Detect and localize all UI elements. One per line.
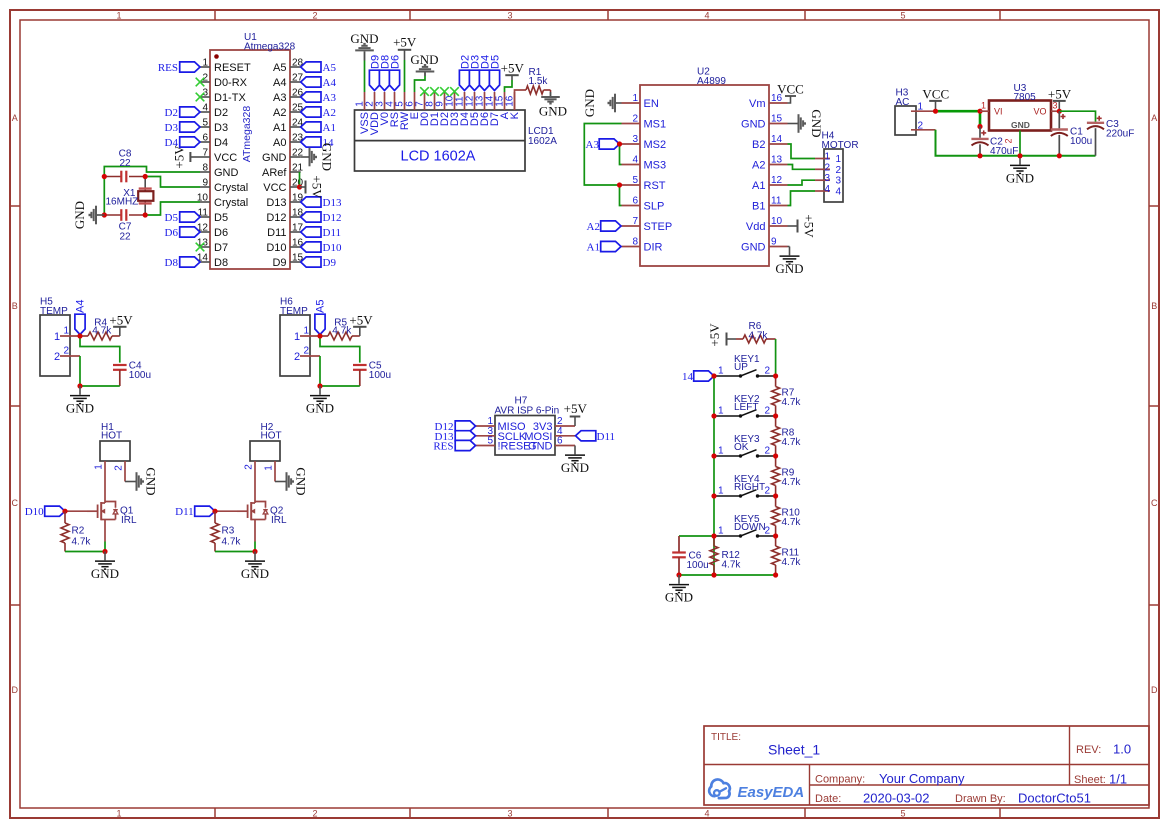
svg-text:+5V: +5V: [501, 61, 525, 76]
svg-text:3: 3: [507, 809, 512, 819]
svg-text:D10: D10: [323, 242, 342, 254]
wire U1 pin10 Crystal to node: [145, 202, 200, 215]
svg-text:9: 9: [771, 237, 777, 248]
svg-text:220uF: 220uF: [1106, 128, 1134, 139]
svg-text:R2: R2: [72, 526, 85, 537]
svg-text:3: 3: [632, 134, 638, 145]
header H2 HOT: [250, 422, 282, 461]
capacitor C1 100u: [1051, 111, 1093, 156]
GND at H2: [275, 467, 309, 495]
port 14 at keypad: [682, 371, 714, 383]
LCD1 pin 8 D1: [425, 92, 442, 126]
svg-text:1: 1: [718, 366, 724, 377]
no-connect X: [196, 93, 205, 102]
GND at H1: [125, 467, 159, 495]
svg-text:AC: AC: [896, 97, 910, 108]
port D13 at U1 right: [301, 197, 342, 209]
svg-text:5: 5: [632, 175, 638, 186]
svg-text:EN: EN: [644, 98, 659, 110]
svg-text:D8: D8: [214, 257, 228, 269]
svg-text:6: 6: [202, 133, 208, 144]
svg-text:6: 6: [557, 436, 563, 447]
svg-text:1: 1: [981, 101, 986, 111]
svg-text:GND: GND: [294, 467, 309, 495]
svg-text:2: 2: [303, 346, 309, 357]
svg-text:1.0: 1.0: [1113, 742, 1131, 757]
U1 pin 10 Crystal: [197, 193, 248, 210]
svg-text:TEMP: TEMP: [40, 306, 68, 317]
svg-text:A0: A0: [273, 137, 286, 149]
svg-text:A2: A2: [273, 107, 286, 119]
LCD1 pin 9 D2: [435, 92, 452, 126]
svg-text:1: 1: [632, 93, 638, 104]
U2 pin 4 MS3: [622, 155, 667, 172]
svg-text:4.7k: 4.7k: [722, 560, 742, 571]
junction at Q1 source: [102, 549, 107, 554]
capacitor C6 100u: [672, 536, 709, 575]
LCD1 pin 1 VSS: [355, 92, 372, 134]
LCD1 pin 5 RW: [395, 92, 412, 130]
svg-text:1: 1: [94, 464, 105, 470]
wire B2 to H4 pin1: [788, 144, 816, 159]
GND at Q1: [91, 552, 119, 582]
svg-text:7: 7: [632, 216, 638, 227]
svg-text:A5: A5: [314, 300, 326, 313]
U1 pin 4 D2: [200, 103, 228, 120]
svg-text:A1: A1: [587, 242, 600, 254]
svg-text:A4: A4: [273, 77, 286, 89]
svg-text:5: 5: [900, 809, 905, 819]
GND at H5: [66, 386, 94, 416]
svg-text:4.7k: 4.7k: [782, 517, 802, 528]
svg-text:D11: D11: [597, 431, 616, 443]
junction at RST: [617, 182, 622, 187]
GND at R1: [539, 90, 567, 119]
port A1 at U2 DIR: [587, 241, 621, 253]
svg-text:A3: A3: [323, 92, 337, 104]
header H1 HOT: [100, 422, 130, 461]
port A5 at U1 right: [301, 62, 337, 74]
svg-text:1: 1: [116, 11, 121, 21]
wire Q2 source to GND: [254, 542, 256, 552]
svg-text:D12: D12: [266, 212, 286, 224]
port D8 at U1: [165, 257, 200, 269]
H4 pin 3: [815, 173, 841, 187]
svg-text:4.7k: 4.7k: [72, 537, 92, 548]
svg-text:K: K: [509, 111, 521, 119]
svg-text:RESET: RESET: [214, 62, 251, 74]
svg-text:RIGHT: RIGHT: [734, 482, 765, 493]
switch KEY1 UP: [714, 354, 776, 378]
H6 pin 2: [294, 346, 320, 364]
svg-text:Your Company: Your Company: [879, 771, 965, 786]
port A4 at U1 right: [301, 77, 337, 89]
svg-text:1: 1: [718, 526, 724, 537]
svg-text:RES: RES: [433, 441, 453, 453]
svg-text:21: 21: [292, 163, 304, 174]
H1 pin 2: [114, 461, 126, 482]
svg-text:2: 2: [114, 465, 125, 471]
svg-text:GND: GND: [306, 401, 334, 416]
svg-text:5: 5: [487, 436, 493, 447]
H2 pin 2: [244, 464, 255, 470]
junction at MS2: [617, 141, 622, 146]
H1 pin 1: [94, 464, 105, 470]
port A2 at U2 STEP: [587, 221, 621, 233]
svg-text:R3: R3: [222, 526, 235, 537]
svg-text:+5V: +5V: [310, 175, 325, 199]
svg-text:GND: GND: [72, 201, 87, 229]
no-connect X: [450, 87, 459, 96]
svg-text:+5V: +5V: [802, 214, 817, 238]
svg-text:STEP: STEP: [644, 221, 673, 233]
junction at VO: [1057, 109, 1062, 114]
svg-text:4.7k: 4.7k: [749, 331, 769, 342]
svg-text:GND: GND: [241, 566, 269, 581]
svg-text:7805: 7805: [1014, 92, 1037, 103]
svg-text:A3: A3: [273, 92, 286, 104]
wire R2 to source: [65, 551, 105, 553]
title block: [704, 726, 1149, 805]
U2 pin 5 RST: [622, 175, 666, 192]
LCD1 pin 10 D3: [445, 92, 462, 126]
resistor R7 4.7k: [772, 376, 802, 416]
svg-text:D11: D11: [323, 227, 342, 239]
svg-text:D6: D6: [165, 227, 179, 239]
H3 pin 2: [911, 120, 936, 131]
header H4 MOTOR: [822, 131, 859, 203]
H5 pin 2: [54, 346, 80, 364]
port D11 at U1 right: [301, 227, 341, 239]
H3 pin 1: [911, 102, 936, 113]
no-connect X: [196, 243, 205, 252]
no-connect X: [420, 87, 429, 96]
resistor R9 4.7k: [772, 456, 802, 496]
wire RST-SLP: [620, 185, 622, 206]
svg-text:D: D: [1151, 685, 1158, 695]
GND at U2 pin 9: [775, 247, 803, 277]
wire VO to C3: [1060, 111, 1096, 122]
+5V at U1 pin 7: [172, 145, 201, 169]
svg-text:+5V: +5V: [1048, 87, 1072, 102]
svg-text:2: 2: [63, 346, 69, 357]
svg-text:VCC: VCC: [214, 152, 237, 164]
LCD1 pin 14 D7: [485, 92, 502, 126]
port A4 at H5: [74, 300, 86, 335]
wire MS2-MS3: [620, 144, 622, 165]
svg-text:GND: GND: [410, 52, 438, 67]
svg-text:D2: D2: [165, 107, 178, 119]
+5V at LCD pin 15: [501, 61, 525, 81]
svg-text:14: 14: [771, 134, 783, 145]
resistor R10 4.7k: [772, 496, 802, 536]
GND at U2 pin 15: [788, 109, 825, 137]
GND at LCD pin 6: [410, 52, 438, 76]
junction at U1 pin 20: [297, 184, 302, 189]
svg-text:1: 1: [835, 154, 841, 165]
+5V at U1 pin 20: [300, 175, 325, 199]
H6 pin 1: [294, 326, 320, 344]
U1 pin 8 GND: [200, 163, 239, 180]
port D2 at LCD pin 11: [459, 55, 471, 91]
svg-text:4.7k: 4.7k: [222, 537, 242, 548]
GND at U3: [1006, 156, 1034, 186]
U1 pin 9 Crystal: [200, 178, 248, 195]
svg-text:Date:: Date:: [815, 793, 841, 805]
svg-text:GND: GND: [262, 152, 287, 164]
U2 pin 13 A2: [752, 155, 787, 172]
svg-text:B2: B2: [752, 139, 765, 151]
svg-text:+5V: +5V: [707, 323, 722, 347]
IC U3 7805: [989, 83, 1051, 131]
LCD1 pin 4 RS: [385, 92, 402, 127]
junction at Q1 gate: [62, 509, 67, 514]
svg-text:A5: A5: [323, 62, 337, 74]
port D6 at LCD pin 4: [389, 55, 401, 91]
svg-text:Atmega328: Atmega328: [244, 42, 296, 53]
svg-text:RES: RES: [158, 62, 178, 74]
wire pin5 to +5V: [404, 60, 406, 92]
header H7 AVR ISP 6-Pin: [495, 396, 560, 456]
svg-text:B1: B1: [752, 201, 765, 213]
svg-text:A4899: A4899: [697, 76, 726, 87]
U1 pin 15 D9: [272, 253, 303, 270]
svg-text:2: 2: [632, 114, 638, 125]
svg-text:REV:: REV:: [1076, 744, 1101, 756]
svg-text:2: 2: [54, 351, 60, 363]
svg-text:DIR: DIR: [644, 242, 663, 254]
H7 pin 5 !RESET: [476, 436, 538, 453]
svg-text:1: 1: [303, 326, 309, 337]
svg-text:12: 12: [771, 175, 783, 186]
svg-text:IRL: IRL: [271, 515, 287, 526]
svg-text:3: 3: [825, 173, 831, 184]
svg-text:VCC: VCC: [263, 182, 286, 194]
LCD1 pin 2 VDD: [365, 92, 382, 135]
svg-text:2: 2: [312, 809, 317, 819]
capacitor C5 100u: [353, 361, 391, 387]
header H3 AC: [895, 88, 916, 136]
svg-text:A2: A2: [587, 221, 600, 233]
svg-text:2: 2: [765, 446, 771, 457]
svg-text:3: 3: [1053, 101, 1058, 111]
svg-text:D11: D11: [175, 506, 194, 518]
svg-text:MS1: MS1: [644, 119, 667, 131]
U1 pin 5 D3: [200, 118, 228, 135]
svg-text:16MHZ: 16MHZ: [106, 197, 139, 208]
svg-text:8: 8: [202, 163, 208, 174]
no-connect X: [440, 87, 449, 96]
U1 pin 12 D6: [197, 223, 228, 240]
U1 pin 25 A2: [273, 103, 304, 120]
U1 pin 1 RESET: [200, 58, 251, 75]
wire A2 to H4 pin2: [788, 165, 816, 170]
svg-text:1.5k: 1.5k: [529, 76, 549, 87]
svg-text:GND: GND: [539, 104, 567, 119]
svg-text:1/1: 1/1: [1109, 771, 1127, 786]
svg-text:100u: 100u: [129, 370, 151, 381]
svg-text:HOT: HOT: [261, 431, 282, 442]
port A5 at H6: [314, 300, 326, 335]
+5V at LCD pin 5: [393, 34, 417, 60]
port D2 at U1: [165, 107, 200, 119]
svg-text:6: 6: [632, 196, 638, 207]
GND at H7 pin 6: [561, 446, 589, 476]
svg-text:MS2: MS2: [644, 139, 667, 151]
junction at H6 GND: [317, 383, 322, 388]
GND at keypad: [665, 575, 693, 605]
port D11 at H7 pin 4: [576, 431, 616, 443]
wire A1 to H4 pin3: [788, 180, 816, 185]
resistor R1 1.5k: [526, 67, 551, 94]
keypad junction dots: [676, 373, 778, 577]
svg-text:D7: D7: [214, 242, 228, 254]
U1 pin 26 A3: [273, 88, 304, 105]
svg-text:HOT: HOT: [101, 431, 122, 442]
wire pin6 to GND: [415, 76, 426, 92]
svg-text:D5: D5: [165, 212, 179, 224]
H5 pin 1: [54, 326, 80, 344]
svg-text:22: 22: [119, 232, 131, 243]
svg-text:A5: A5: [273, 62, 286, 74]
port D5 at U1: [165, 212, 200, 224]
svg-text:2020-03-02: 2020-03-02: [863, 790, 930, 805]
svg-text:2: 2: [312, 11, 317, 21]
svg-text:1602A: 1602A: [528, 136, 557, 147]
wire pin1 to C4: [80, 336, 120, 363]
+5V at R6: [707, 323, 736, 347]
wire R3 to source: [215, 551, 255, 553]
U1 pin 17 D11: [267, 223, 303, 240]
header H6 TEMP: [280, 297, 310, 377]
U2 pin 16 Vm: [749, 93, 788, 110]
svg-text:1: 1: [54, 331, 60, 343]
U2 pin 7 STEP: [622, 216, 673, 233]
+5V at H7 pin 2: [564, 401, 588, 426]
svg-text:2: 2: [244, 464, 255, 470]
svg-text:+5V: +5V: [172, 145, 187, 169]
GND at H6: [306, 386, 334, 416]
svg-text:MS3: MS3: [644, 160, 667, 172]
svg-text:D5: D5: [489, 55, 501, 69]
H7 pin 1 MISO: [476, 416, 527, 433]
svg-text:ARef: ARef: [262, 167, 287, 179]
svg-text:2: 2: [294, 351, 300, 363]
resistor R12 4.7k: [710, 536, 741, 575]
svg-text:GND: GND: [582, 89, 597, 117]
svg-text:A: A: [1151, 113, 1157, 123]
U2 pin 11 B1: [752, 196, 787, 213]
U1 pin 23 A0: [273, 133, 304, 150]
resistor R6 4.7k: [736, 321, 776, 343]
svg-text:Company:: Company:: [815, 774, 865, 786]
H4 pin 4: [815, 184, 841, 198]
svg-text:GND: GND: [214, 167, 239, 179]
svg-text:D4: D4: [214, 137, 228, 149]
svg-text:UP: UP: [734, 362, 748, 373]
svg-text:D12: D12: [323, 212, 342, 224]
port RES at H7: [433, 440, 475, 452]
U1 pin 16 D10: [266, 238, 303, 255]
resistor R5 4.7k: [320, 317, 360, 340]
svg-text:D8: D8: [165, 257, 179, 269]
svg-text:4.7k: 4.7k: [782, 477, 802, 488]
svg-text:3: 3: [507, 11, 512, 21]
port A3 at U2 MS2: [586, 139, 620, 151]
U1 pin 22 GND: [262, 148, 304, 165]
svg-text:1: 1: [825, 152, 831, 163]
svg-text:Crystal: Crystal: [214, 182, 248, 194]
svg-text:A1: A1: [752, 180, 765, 192]
H2 pin 1: [264, 461, 276, 482]
port A1 at U1 right: [301, 122, 336, 134]
svg-text:D6: D6: [214, 227, 228, 239]
svg-text:D1-TX: D1-TX: [214, 92, 246, 104]
GND at LCD pin 1: [350, 31, 378, 60]
svg-text:22: 22: [119, 158, 131, 169]
svg-text:1: 1: [264, 465, 275, 471]
svg-text:A3: A3: [586, 139, 600, 151]
svg-text:D11: D11: [267, 227, 286, 239]
resistor R2 4.7k: [61, 511, 91, 551]
switch KEY3 OK: [714, 434, 776, 458]
junction at Q2 source: [252, 549, 257, 554]
svg-text:GND: GND: [320, 143, 335, 171]
junction at H6 pin1: [317, 333, 322, 338]
H7 pin 3 SCLK: [476, 426, 527, 443]
svg-text:SLP: SLP: [644, 201, 665, 213]
svg-text:4: 4: [202, 103, 208, 114]
svg-text:15: 15: [771, 114, 783, 125]
svg-text:D9: D9: [323, 257, 337, 269]
svg-text:4.7k: 4.7k: [782, 437, 802, 448]
svg-text:2: 2: [765, 486, 771, 497]
svg-text:2: 2: [1004, 138, 1014, 143]
svg-text:1: 1: [116, 809, 121, 819]
U2 pin 3 MS2: [622, 134, 667, 151]
U2 pin 8 DIR: [622, 237, 663, 254]
svg-text:GND: GND: [561, 460, 589, 475]
svg-text:1: 1: [918, 102, 924, 113]
svg-text:2: 2: [825, 162, 831, 173]
wire C6 top: [679, 535, 714, 537]
svg-text:1: 1: [718, 406, 724, 417]
wire R6 to KEY1: [775, 339, 777, 376]
U1 pin 6 D4: [200, 133, 228, 150]
svg-text:D2: D2: [214, 107, 228, 119]
svg-text:14: 14: [682, 371, 694, 383]
op: IC U1 Atmega328 body: [210, 32, 296, 269]
wire pin1 to C5: [320, 336, 360, 363]
wire U1 pin8 GND net to C8: [104, 167, 200, 177]
svg-text:A1: A1: [273, 122, 286, 134]
svg-text:4: 4: [835, 187, 841, 198]
svg-text:4.7k: 4.7k: [782, 397, 802, 408]
svg-text:Sheet_1: Sheet_1: [768, 742, 820, 758]
svg-text:GND: GND: [350, 31, 378, 46]
H7 pin 4 MOSI: [524, 426, 575, 443]
svg-text:B: B: [1151, 301, 1157, 311]
svg-text:GND: GND: [665, 590, 693, 605]
LCD1 pin 3 V0: [375, 92, 392, 125]
svg-text:A: A: [12, 113, 18, 123]
crystal X1 16MHZ: [106, 177, 154, 216]
svg-text:TITLE:: TITLE:: [711, 732, 741, 743]
svg-text:1: 1: [718, 486, 724, 497]
svg-text:A4: A4: [323, 77, 337, 89]
LCD1 pin 7 D0: [415, 92, 432, 126]
U1 pin 14 D8: [197, 253, 228, 270]
